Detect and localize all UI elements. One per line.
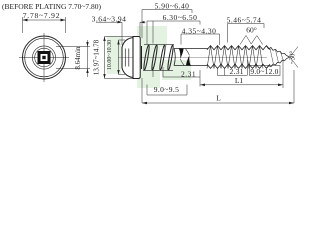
svg-text:5.46~5.74: 5.46~5.74 (227, 15, 262, 24)
svg-text:5.90~6.40: 5.90~6.40 (155, 1, 190, 10)
svg-text:2.31: 2.31 (181, 69, 196, 78)
svg-text:10.00~10.30: 10.00~10.30 (107, 40, 113, 70)
svg-text:9.0~9.5: 9.0~9.5 (154, 85, 180, 94)
svg-text:7.78~7.92: 7.78~7.92 (23, 11, 61, 20)
svg-text:~30°: ~30° (290, 51, 297, 64)
svg-text:9.0~12.0: 9.0~12.0 (250, 67, 278, 76)
svg-text:L1: L1 (235, 76, 244, 85)
svg-text:8.64min: 8.64min (74, 46, 82, 70)
svg-text:3.64~3.94: 3.64~3.94 (92, 14, 127, 23)
svg-text:13.97~14.78: 13.97~14.78 (93, 39, 101, 75)
svg-text:L: L (216, 94, 221, 103)
svg-text:(BEFORE PLATING 7.70~7.80): (BEFORE PLATING 7.70~7.80) (2, 2, 102, 11)
svg-text:6.30~6.50: 6.30~6.50 (163, 13, 198, 22)
svg-text:2.31: 2.31 (230, 67, 244, 76)
svg-text:60°: 60° (246, 25, 257, 34)
svg-text:4.35~4.30: 4.35~4.30 (182, 27, 217, 36)
